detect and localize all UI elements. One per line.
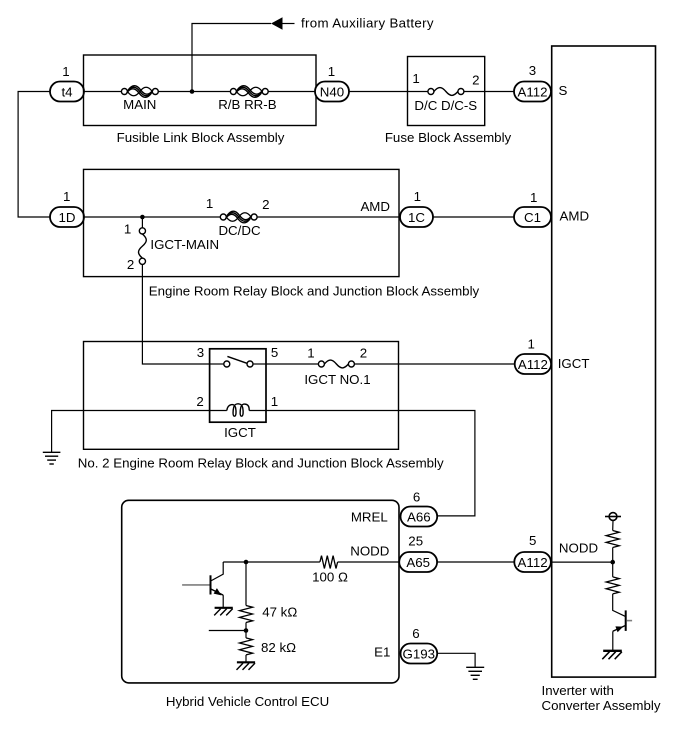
wire relay pin5 to IGCT NO.1 [266, 363, 318, 365]
connector 1D [50, 207, 84, 227]
relay switch contact wires [210, 363, 224, 365]
fusible link MAIN [121, 86, 158, 112]
node junction 47k tap [244, 560, 249, 565]
svg-text:A112: A112 [517, 84, 547, 99]
wire 100 ohm to A65 [338, 561, 400, 563]
svg-text:2: 2 [472, 73, 479, 88]
svg-text:1: 1 [271, 394, 278, 409]
transistor Q1 emitter with arrow [211, 588, 223, 608]
wire stub right of arrowhead [283, 23, 295, 25]
Fusible Link Block Assembly box [84, 55, 317, 126]
svg-text:A66: A66 [407, 509, 431, 524]
connector A112 (NODD) [514, 552, 551, 572]
svg-text:NODD: NODD [559, 540, 598, 555]
svg-text:Converter Assembly: Converter Assembly [542, 698, 661, 713]
Inverter with Converter Assembly box [552, 46, 656, 677]
connector 1C [400, 207, 433, 227]
wire into fuse D/C [408, 91, 428, 93]
connector A65 [399, 552, 437, 572]
connector A112 (IGCT) [515, 354, 551, 374]
wire DC/DC to 1C [257, 216, 400, 218]
resistor R1 in inverter [606, 531, 619, 548]
svg-text:1: 1 [527, 337, 534, 352]
wire A65 to A112 NODD [437, 561, 514, 563]
wire relay coil pin1 to A66 MREL [249, 411, 475, 516]
svg-text:2: 2 [262, 197, 269, 212]
svg-text:from Auxiliary Battery: from Auxiliary Battery [301, 15, 434, 30]
svg-text:1: 1 [530, 190, 537, 205]
wire N40 to fuse block [349, 91, 408, 93]
svg-text:S: S [559, 83, 568, 98]
svg-text:A112: A112 [518, 555, 548, 570]
transistor Q2 bar [625, 610, 627, 631]
svg-text:2: 2 [196, 394, 203, 409]
svg-text:IGCT: IGCT [558, 356, 590, 371]
svg-text:2: 2 [127, 257, 134, 272]
svg-text:AMD: AMD [560, 209, 590, 224]
wire NODD node to resistor R2 [612, 562, 614, 577]
svg-text:1D: 1D [59, 210, 76, 225]
svg-text:1C: 1C [408, 210, 425, 225]
transistor Q2 emitter with arrow [613, 626, 626, 651]
wire IGCT NO.1 to A112 IGCT [354, 363, 514, 365]
resistor 47 kohm [240, 604, 298, 622]
wire stub left of divider node [209, 630, 246, 632]
wire R2 to transistor Q2 [613, 594, 626, 617]
svg-text:1: 1 [414, 189, 421, 204]
svg-text:DC/DC: DC/DC [218, 223, 261, 238]
svg-text:D/C D/C-S: D/C D/C-S [414, 98, 477, 113]
svg-text:1: 1 [412, 71, 419, 86]
arrowhead from Auxiliary Battery [271, 17, 283, 30]
node junction in fusible link block [190, 89, 195, 94]
svg-text:C1: C1 [524, 210, 541, 225]
svg-text:1: 1 [206, 196, 213, 211]
wire IGCT-MAIN down into No.2 block to relay pin 3 [142, 264, 209, 364]
svg-text:NODD: NODD [350, 543, 389, 558]
connector C1 [514, 207, 551, 227]
svg-text:IGCT: IGCT [224, 425, 256, 440]
svg-text:IGCT NO.1: IGCT NO.1 [304, 372, 370, 387]
Engine Room Relay Block and Junction Block Assembly box [84, 169, 400, 276]
chassis ground below Q1 emitter [214, 608, 233, 616]
connector N40 [315, 82, 349, 102]
svg-text:Fusible Link Block Assembly: Fusible Link Block Assembly [117, 130, 285, 145]
wire 1D to DC/DC [84, 216, 220, 218]
svg-text:Inverter with: Inverter with [542, 683, 614, 698]
wire junction down to 47k [245, 562, 247, 606]
wire terminal to resistor R1 [612, 520, 614, 530]
svg-text:A112: A112 [518, 357, 548, 372]
fusible link DC/DC [218, 211, 261, 238]
wire R1 to NODD node [612, 548, 614, 563]
chassis ground below Q2 [602, 651, 622, 659]
wire from Auxiliary Battery feed down to fusible link node [192, 24, 271, 92]
ground symbol left (earth) [43, 452, 61, 464]
wire 82k to chassis ground [245, 655, 247, 662]
svg-text:82 kΩ: 82 kΩ [261, 640, 296, 655]
fuse D/C D/C-S [414, 88, 477, 114]
svg-text:Fuse Block Assembly: Fuse Block Assembly [385, 130, 512, 145]
resistor 100 ohm [312, 556, 348, 585]
transistor Q2 base lead (gray) [627, 620, 632, 622]
svg-text:IGCT-MAIN: IGCT-MAIN [150, 237, 219, 252]
wire divider node to 82k [245, 631, 247, 638]
wire 1C to C1 [433, 216, 514, 218]
node divider junction [244, 628, 249, 633]
svg-text:6: 6 [413, 490, 420, 505]
wire NODD from inverter edge [551, 561, 613, 563]
connector A66 [401, 507, 438, 527]
relay switch contacts [224, 361, 230, 367]
svg-text:1: 1 [63, 189, 70, 204]
ground symbol right of G193 (earth) [466, 667, 484, 679]
svg-text:G193: G193 [403, 646, 436, 661]
wire 47k to divider node [245, 623, 247, 631]
connector A112 (S) [514, 82, 551, 102]
resistor R2 in inverter [606, 577, 619, 594]
svg-text:1: 1 [124, 222, 131, 237]
wire MAIN to R/B RR-B [158, 91, 230, 93]
label Inverter with Converter Assembly [542, 683, 661, 713]
transistor Q1 bar [210, 575, 212, 594]
relay coil IGCT [227, 404, 249, 416]
relay switch blade [227, 356, 247, 363]
wire relay coil pin2 to ground riser [52, 411, 227, 453]
svg-text:Engine Room Relay Block and Ju: Engine Room Relay Block and Junction Blo… [149, 283, 480, 298]
Fuse Block Assembly box [408, 57, 485, 126]
wire left riser t4 to 1D [18, 92, 50, 218]
fuse IGCT NO.1 [304, 360, 370, 387]
transistor Q1 base lead (gray) [182, 584, 209, 586]
connector t4 [50, 82, 84, 102]
resistor 82 kohm [240, 638, 297, 655]
svg-text:MAIN: MAIN [123, 97, 156, 112]
svg-text:t4: t4 [61, 84, 72, 99]
wire R/B RR-B to N40 [268, 91, 315, 93]
relay IGCT box [210, 349, 266, 422]
svg-text:3: 3 [529, 63, 536, 78]
wire t4 to MAIN [84, 91, 121, 93]
svg-text:1: 1 [62, 64, 69, 79]
node junction IGCT-MAIN tap [140, 215, 145, 220]
svg-text:MREL: MREL [351, 509, 388, 524]
svg-text:3: 3 [197, 345, 204, 360]
wire NODD inside ECU [223, 561, 320, 563]
svg-text:A65: A65 [406, 555, 430, 570]
transistor Q1 collector wire [211, 562, 223, 581]
fusible link R/B RR-B [218, 86, 276, 112]
svg-text:6: 6 [412, 626, 419, 641]
Hybrid Vehicle Control ECU box [122, 500, 399, 683]
svg-text:25: 25 [408, 534, 423, 549]
wire junction down to IGCT-MAIN [141, 217, 143, 228]
wire G193 to chassis ground [437, 653, 475, 667]
svg-text:R/B RR-B: R/B RR-B [218, 97, 276, 112]
wire fuse to A112 S [464, 91, 514, 93]
svg-text:N40: N40 [320, 84, 344, 99]
connector G193 [401, 644, 438, 664]
svg-text:Hybrid Vehicle Control ECU: Hybrid Vehicle Control ECU [166, 694, 329, 709]
No. 2 Engine Room Relay Block and Junction Block Assembly box [84, 342, 399, 450]
svg-text:No. 2 Engine Room Relay Block: No. 2 Engine Room Relay Block and Juncti… [78, 456, 444, 471]
svg-text:2: 2 [360, 345, 367, 360]
node NODD junction in inverter [610, 560, 615, 565]
svg-text:1: 1 [307, 346, 314, 361]
svg-text:AMD: AMD [360, 199, 390, 214]
svg-text:5: 5 [529, 533, 536, 548]
terminal node circle in inverter [605, 513, 621, 521]
chassis ground below 82k [237, 662, 256, 670]
svg-text:5: 5 [271, 345, 278, 360]
svg-text:1: 1 [328, 64, 335, 79]
fusible link IGCT-MAIN [139, 228, 220, 265]
svg-text:E1: E1 [374, 645, 390, 660]
svg-text:100 Ω: 100 Ω [312, 570, 348, 585]
svg-text:47 kΩ: 47 kΩ [262, 604, 297, 619]
